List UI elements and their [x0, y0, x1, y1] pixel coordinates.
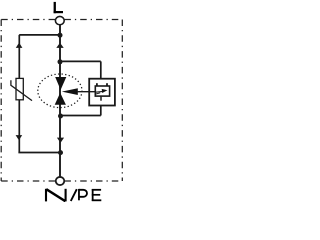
terminal L circle	[55, 16, 64, 24]
arrow up on middle branch	[56, 43, 63, 48]
inner box arrow head	[102, 89, 108, 93]
label P of N/PE drawn as strokes	[79, 189, 87, 200]
junction node top branch	[58, 33, 63, 38]
trigger control outer box	[89, 79, 115, 106]
trigger wire to control box	[77, 91, 95, 93]
label E of N/PE drawn as strokes	[92, 189, 102, 201]
inner box bottom tick	[100, 97, 102, 101]
wire right branch bottom horizontal	[61, 115, 101, 117]
varistor RV body	[16, 78, 23, 99]
spark gap electrode triangle bottom	[55, 93, 66, 105]
enclosure dash-dot border right	[121, 20, 123, 182]
arrow down on middle branch	[57, 138, 64, 143]
wire top branch horizontal	[19, 34, 60, 36]
wire right branch top horizontal	[60, 60, 101, 62]
junction node right top branch	[58, 59, 63, 64]
enclosure dash-dot border left	[0, 20, 2, 182]
trigger control inner box	[95, 86, 109, 96]
enclosure dash-dot border bottom	[1, 180, 122, 182]
enclosure dash-dot border top	[1, 19, 122, 21]
terminal N/PE circle	[56, 177, 65, 185]
trigger arrow triangle pointing left	[62, 88, 78, 95]
label L drawn as strokes	[54, 2, 63, 13]
inner box arrow line	[96, 90, 103, 93]
wire right branch bottom vertical from box	[100, 105, 102, 115]
arrow up on left branch	[16, 43, 23, 48]
wire main vertical L to N/PE	[59, 25, 61, 177]
inner box arrow tail diagonal	[96, 93, 100, 94]
wire left branch vertical	[18, 35, 20, 153]
junction node bottom branch	[58, 150, 63, 155]
junction node right bottom branch	[58, 114, 63, 119]
label / of N/PE drawn as stroke	[71, 189, 77, 201]
arrow down on left branch	[16, 135, 23, 140]
inner box top tick right	[106, 83, 108, 85]
spark gap gas tube dotted ellipse	[38, 74, 82, 108]
spark gap electrode triangle top	[55, 77, 66, 90]
wire bottom horizontal	[18, 152, 60, 154]
inner box top tick left	[96, 83, 98, 85]
label N of N/PE drawn as strokes	[46, 189, 66, 202]
wire right branch top vertical into box	[100, 61, 102, 79]
varistor diagonal stroke with tail	[11, 80, 32, 100]
